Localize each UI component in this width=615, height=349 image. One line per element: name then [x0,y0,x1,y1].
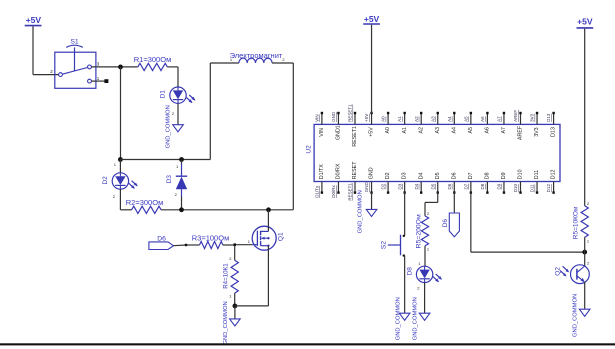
svg-text:A1: A1 [397,116,402,122]
svg-text:RESET: RESET [352,161,358,179]
svg-text:A5: A5 [463,116,468,122]
svg-text:R5=200Ом: R5=200Ом [416,214,423,248]
node junction R4/Q1 source [233,304,238,309]
svg-text:R3=100Ом: R3=100Ом [192,234,229,243]
svg-text:D6: D6 [442,219,449,228]
svg-text:GND: GND [369,167,375,179]
svg-text:A3: A3 [430,116,435,122]
ground GND_COMMON (R4/Q1) [230,319,241,326]
wire D6 pin to flag [453,192,455,213]
resistor R5 (10КОм) [581,206,588,238]
svg-text:D4: D4 [414,183,419,189]
wire +5V to R5 (10К) [584,29,586,206]
wire D8 to ground [424,283,426,314]
svg-text:D9: D9 [501,172,507,179]
pin D9 (bottom) of U2 [503,182,505,193]
svg-text:Q2: Q2 [555,267,562,276]
svg-text:+5V: +5V [364,14,380,24]
svg-text:GND_COMMON: GND_COMMON [396,297,402,340]
svg-text:+5V: +5V [369,127,375,137]
svg-text:D7: D7 [463,183,468,189]
svg-text:D0/Rx: D0/Rx [331,185,336,198]
wire D6 flag to R3 [173,244,186,247]
svg-text:U2: U2 [306,145,313,154]
svg-text:RESET1: RESET1 [348,104,353,122]
svg-text:R4=10К1: R4=10К1 [223,263,230,289]
svg-text:GND: GND [364,182,369,193]
pin A4 (top) of U2 [453,114,455,125]
svg-text:S1: S1 [70,39,79,46]
node junction D3 bottom [179,207,184,212]
wire D1 to ground [177,103,179,124]
wire node to D2 column [120,67,122,160]
svg-text:A6: A6 [485,127,491,134]
svg-text:D3: D3 [397,183,402,189]
svg-text:D3: D3 [402,172,408,179]
pin A5 (top) of U2 [470,114,472,125]
pin RESET (bottom) of U2 [354,182,356,193]
wire D2 to R2 [119,189,121,210]
switch S2 (pushbutton) [403,235,405,237]
photo arrows of Q2 [563,266,568,271]
svg-text:VIN: VIN [315,114,320,122]
svg-text:D1/Tx: D1/Tx [315,185,320,198]
svg-text:Электромагнит: Электромагнит [230,51,283,60]
transistor Q1 (N-MOSFET) [252,226,276,250]
svg-text:R5=10КОм: R5=10КОм [572,206,579,239]
LED D2 [112,173,138,189]
pin D8 (bottom) of U2 [486,182,488,193]
svg-text:D5: D5 [435,172,441,179]
svg-text:D7: D7 [468,172,474,179]
svg-text:GND1: GND1 [336,125,342,140]
svg-text:+5V: +5V [364,114,369,122]
svg-text:A3: A3 [435,127,441,134]
pin D13 (top) of U2 [553,114,555,125]
svg-text:D13: D13 [546,113,551,122]
pin A2 (top) of U2 [420,114,422,125]
pin A1 (top) of U2 [404,114,406,125]
wire S1 pin 3 to R1 [91,66,137,68]
svg-text:GND_COMMON: GND_COMMON [358,190,364,233]
LED D1 [170,87,196,103]
svg-text:R2=300Ом: R2=300Ом [126,198,163,207]
pin A6 (top) of U2 [486,114,488,125]
svg-text:D1/TX: D1/TX [319,164,325,179]
svg-text:A6: A6 [480,116,485,122]
node junction D2 top [118,157,123,162]
pin D2 (bottom) of U2 [387,182,389,193]
wire to ground (R4) [234,306,236,319]
wire +5V to U2 +5V pin [371,25,373,114]
op-amp U2 body (microcontroller) [314,124,560,181]
pad at D6 flag wire [185,244,187,246]
resistor R1 [138,63,167,70]
svg-text:Q1: Q1 [277,232,284,241]
svg-text:D8: D8 [485,172,491,179]
resistor R3 [200,241,223,248]
svg-text:A2: A2 [414,116,419,122]
wire R5 to Q2 [584,237,586,266]
pin RESET1 (top) of U2 [354,114,356,125]
ground GND_COMMON (D1) [173,125,184,132]
svg-text:A7: A7 [501,127,507,134]
wire S2 to ground [404,256,406,314]
svg-text:VIN: VIN [319,128,325,137]
svg-text:3V3: 3V3 [530,113,535,122]
svg-text:3V3: 3V3 [534,127,540,136]
svg-text:RESET1: RESET1 [352,126,358,147]
svg-text:D6: D6 [447,183,452,189]
wire D5 pin to R5 [437,192,439,202]
wire +5V to S1 pin 2 [32,26,34,74]
svg-text:D10: D10 [518,169,524,179]
net flag D6 (to gate) [149,242,174,250]
svg-text:AREF: AREF [513,110,518,122]
resistor R5 (200 Ом) [421,216,428,246]
svg-text:GND_COMMON: GND_COMMON [223,301,229,344]
node junction Q1 drain [266,207,271,212]
wire D3 pin to S2 [404,192,406,235]
wire to LED D2 [119,160,121,173]
svg-text:D13: D13 [551,127,557,137]
svg-text:GND: GND [331,111,336,122]
svg-text:D3: D3 [166,175,173,184]
node junction S1/R1/D2 column [118,65,123,70]
svg-text:D2: D2 [385,172,391,179]
svg-text:D10: D10 [513,184,518,193]
ground GND_COMMON (S2) [399,313,410,320]
ground GND_COMMON (D8) [419,313,430,320]
no-connect stub on S1 pin 1 [91,80,104,82]
svg-text:D11: D11 [530,184,535,192]
pin D6 (bottom) of U2 [453,182,455,193]
svg-text:GND_COMMON: GND_COMMON [573,294,579,337]
inductor Электромагнит [209,63,211,160]
svg-text:GND_COMMON: GND_COMMON [413,297,419,340]
switch S1 [55,52,96,88]
pin D11 (bottom) of U2 [536,182,538,193]
svg-text:RESET1: RESET1 [348,183,353,201]
svg-text:A7: A7 [497,116,502,122]
frame border (bottom) [0,343,615,345]
transistor Q2 (photo NPN) [571,265,590,284]
svg-text:D12: D12 [546,184,551,193]
node junction R5/Q2/D7 [582,250,587,255]
pin D3 (bottom) of U2 [404,182,406,193]
node junction D3 top [179,157,184,162]
wire R5 to LED D8 [424,246,426,266]
pin +5V (top) of U2 [371,114,373,125]
svg-text:D6: D6 [157,235,166,242]
pin A7 (top) of U2 [503,114,505,125]
svg-text:D4: D4 [418,172,424,179]
svg-text:A4: A4 [451,127,457,134]
LED D8 [416,266,442,282]
svg-text:D11: D11 [534,170,540,179]
svg-text:A0: A0 [385,127,391,134]
wire R3 to junction [223,244,234,246]
svg-text:GND_COMMON: GND_COMMON [165,105,171,148]
ground GND_COMMON (Q2) [579,309,590,316]
wire D7 pin to Q2 collector node [470,192,472,252]
wire R2/D3 row to drain node [161,209,293,211]
pin D1/TX (bottom) of U2 [321,182,323,193]
svg-text:A5: A5 [468,127,474,134]
svg-text:AREF: AREF [518,125,524,140]
svg-text:D0/RX: D0/RX [336,163,342,179]
net flag D6 (right) [449,213,459,237]
diode D3 [181,160,183,165]
wire gate to R3/R4 junction [236,244,252,246]
svg-text:R1=300Ом: R1=300Ом [134,55,171,64]
svg-text:D1: D1 [160,90,167,99]
pin D5 (bottom) of U2 [437,182,439,193]
svg-text:+5V: +5V [26,15,42,25]
ground GND_COMMON (U2) [366,209,377,216]
pin D4 (bottom) of U2 [420,182,422,193]
svg-text:D9: D9 [497,183,502,189]
wire top of D2/D3 row [120,159,210,161]
resistor R2 [132,206,161,213]
svg-text:D8: D8 [406,267,413,276]
pin D7 (bottom) of U2 [470,182,472,193]
pin AREF (top) of U2 [520,114,522,125]
svg-text:D12: D12 [551,169,557,179]
pin VIN (top) of U2 [321,114,323,125]
svg-text:A2: A2 [418,127,424,134]
svg-text:S2: S2 [380,241,387,250]
pin 3V3 (top) of U2 [536,114,538,125]
svg-text:D8: D8 [480,183,485,189]
svg-text:D2: D2 [102,176,109,185]
wire Q1 source to R4 bottom [235,305,269,307]
pin GND (bottom) of U2 [371,182,373,193]
pin D10 (bottom) of U2 [520,182,522,193]
svg-text:D5: D5 [430,183,435,189]
pin D12 (bottom) of U2 [553,182,555,193]
resistor R4 [234,246,236,260]
wire GND pin to ground [371,192,373,209]
svg-text:A1: A1 [402,127,408,134]
wire R1 to LED D1 [167,66,178,68]
junction pad R3/R4/gate [233,243,236,246]
pin GND1 (top) of U2 [337,114,339,125]
svg-text:D6: D6 [451,172,457,179]
svg-text:+5V: +5V [577,17,593,27]
svg-text:D2: D2 [381,183,386,189]
pin D0/RX (bottom) of U2 [337,182,339,193]
svg-text:A4: A4 [447,116,452,122]
pin A0 (top) of U2 [387,114,389,125]
svg-text:A0: A0 [381,116,386,122]
pin A3 (top) of U2 [437,114,439,125]
